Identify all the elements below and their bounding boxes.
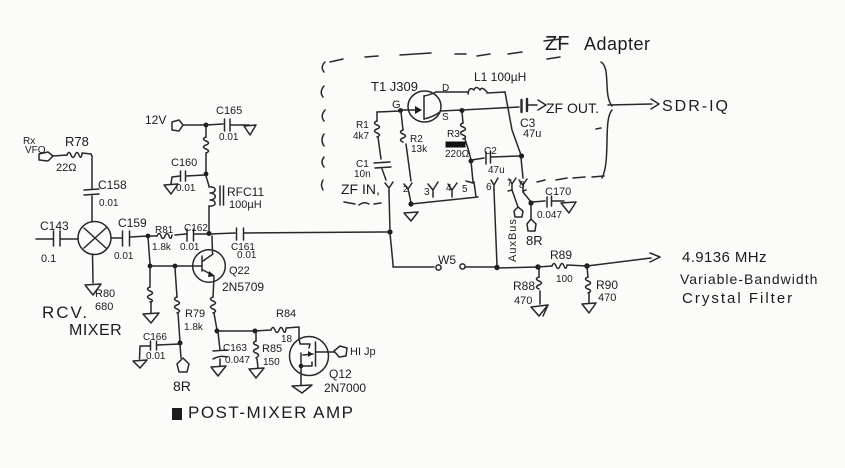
svg-text:C162: C162 xyxy=(184,223,208,234)
svg-text:R85: R85 xyxy=(262,343,282,355)
svg-text:1.8k: 1.8k xyxy=(152,242,172,253)
svg-text:C170: C170 xyxy=(545,186,571,198)
svg-text:R1: R1 xyxy=(356,120,369,131)
svg-text:680: 680 xyxy=(95,301,113,313)
svg-text:AuxBus: AuxBus xyxy=(507,218,519,262)
svg-text:0.01: 0.01 xyxy=(114,251,134,262)
svg-text:0.01: 0.01 xyxy=(180,242,200,253)
svg-text:6: 6 xyxy=(486,182,492,193)
svg-text:220Ω: 220Ω xyxy=(445,149,470,160)
svg-text:4k7: 4k7 xyxy=(353,131,370,142)
svg-text:R90: R90 xyxy=(596,278,618,292)
svg-text:HI Jp: HI Jp xyxy=(350,346,376,358)
svg-text:R89: R89 xyxy=(550,248,572,262)
svg-text:C160: C160 xyxy=(171,157,197,169)
svg-text:22Ω: 22Ω xyxy=(56,162,76,174)
svg-text:T1 J309: T1 J309 xyxy=(371,79,418,94)
svg-text:4: 4 xyxy=(446,183,452,194)
svg-text:Adapter: Adapter xyxy=(584,34,651,54)
svg-text:13k: 13k xyxy=(411,144,428,155)
svg-text:POST-MIXER AMP: POST-MIXER AMP xyxy=(188,403,354,422)
svg-text:0.01: 0.01 xyxy=(99,198,119,209)
svg-text:MIXER: MIXER xyxy=(69,322,122,339)
svg-text:SDR-IQ: SDR-IQ xyxy=(662,98,730,115)
svg-text:0.01: 0.01 xyxy=(176,183,196,194)
svg-text:4.9136 MHz: 4.9136 MHz xyxy=(682,249,767,266)
svg-text:Q22: Q22 xyxy=(229,265,250,277)
svg-text:2N5709: 2N5709 xyxy=(222,280,264,294)
svg-text:Q12: Q12 xyxy=(329,367,352,381)
svg-text:R84: R84 xyxy=(276,308,296,320)
svg-text:S: S xyxy=(442,112,449,123)
svg-text:1.8k: 1.8k xyxy=(184,322,204,333)
svg-text:Variable-Bandwidth: Variable-Bandwidth xyxy=(680,271,818,287)
svg-text:0.047: 0.047 xyxy=(537,210,562,221)
svg-text:R79: R79 xyxy=(185,308,205,320)
svg-text:47u: 47u xyxy=(488,165,505,176)
svg-text:R88: R88 xyxy=(513,279,535,293)
svg-text:2: 2 xyxy=(403,184,408,194)
svg-text:100µH: 100µH xyxy=(229,199,262,211)
svg-text:R80: R80 xyxy=(95,288,115,300)
svg-text:L1 100µH: L1 100µH xyxy=(474,70,526,84)
svg-text:W5: W5 xyxy=(438,253,456,267)
svg-text:150: 150 xyxy=(263,357,280,368)
svg-text:2N7000: 2N7000 xyxy=(324,381,366,395)
svg-text:C2: C2 xyxy=(484,146,497,157)
svg-text:470: 470 xyxy=(514,295,532,307)
svg-text:100: 100 xyxy=(556,274,573,285)
svg-text:ZF IN,: ZF IN, xyxy=(341,181,380,197)
svg-text:ZF OUT.: ZF OUT. xyxy=(546,100,599,116)
svg-text:8R: 8R xyxy=(173,378,191,394)
svg-text:0.047: 0.047 xyxy=(225,355,250,366)
svg-text:R81: R81 xyxy=(155,225,174,236)
svg-text:ZF: ZF xyxy=(545,33,569,55)
svg-text:VFO: VFO xyxy=(25,145,46,156)
svg-text:8R: 8R xyxy=(526,233,543,248)
svg-text:C158: C158 xyxy=(98,178,127,192)
svg-text:0.1: 0.1 xyxy=(41,253,56,265)
svg-text:18: 18 xyxy=(281,334,293,345)
svg-text:C159: C159 xyxy=(118,216,147,230)
svg-text:Crystal Filter: Crystal Filter xyxy=(682,290,794,307)
svg-text:C163: C163 xyxy=(223,343,247,354)
svg-text:R78: R78 xyxy=(65,134,89,149)
svg-text:0.01: 0.01 xyxy=(237,250,257,261)
svg-text:RFC11: RFC11 xyxy=(227,185,264,199)
svg-text:10n: 10n xyxy=(354,169,371,180)
svg-text:47u: 47u xyxy=(523,128,541,140)
svg-text:R3: R3 xyxy=(447,129,460,140)
svg-text:12V: 12V xyxy=(145,113,166,127)
svg-text:C143: C143 xyxy=(40,219,69,233)
svg-text:5: 5 xyxy=(462,184,468,195)
svg-text:C165: C165 xyxy=(216,105,242,117)
svg-text:0.01: 0.01 xyxy=(219,132,239,143)
svg-text:C166: C166 xyxy=(143,332,167,343)
svg-text:0.01: 0.01 xyxy=(146,351,166,362)
svg-text:470: 470 xyxy=(598,292,616,304)
svg-text:3: 3 xyxy=(424,187,430,198)
svg-text:RCV.: RCV. xyxy=(42,303,89,322)
